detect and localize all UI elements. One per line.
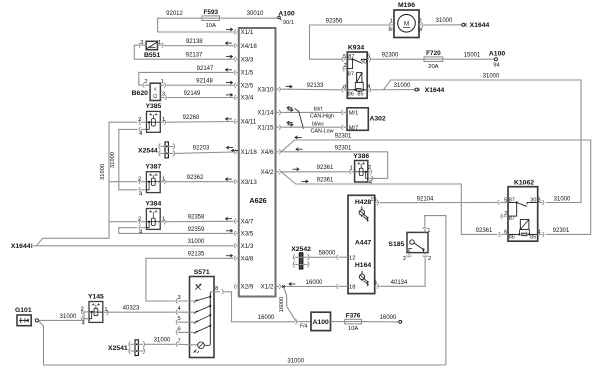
svg-text:85: 85: [357, 92, 363, 98]
svg-text:A100: A100: [489, 51, 505, 58]
svg-text:16000: 16000: [306, 280, 323, 286]
wire S571 pin 8 to 16000: [224, 292, 295, 322]
wire 40134: [379, 258, 425, 287]
wire 92012: [158, 11, 234, 32]
wire 31000 down from G101: [39, 321, 446, 365]
wire 31000 X2541 to S571/7: [144, 338, 175, 345]
svg-text:2: 2: [419, 19, 422, 25]
svg-text:X1/5: X1/5: [241, 70, 254, 77]
svg-text:S185: S185: [388, 241, 404, 248]
wire 92361 lower: [281, 172, 497, 235]
svg-text:6: 6: [177, 326, 180, 332]
connector X2544: [138, 142, 175, 158]
A626 pin X2/5: [226, 81, 254, 89]
wire 92301 lower: [281, 145, 388, 151]
wire 16000 X1/2 to A447/18: [281, 280, 336, 288]
svg-text:30: 30: [530, 197, 536, 203]
A626 pin X1/3: [234, 243, 253, 250]
svg-text:A447: A447: [355, 239, 371, 246]
svg-text:94: 94: [493, 63, 499, 69]
K934 pin 2: [343, 63, 347, 71]
wire Y386/4 to 92301: [368, 152, 388, 179]
warning lamp H164: [355, 262, 371, 286]
ground G101: [15, 307, 32, 326]
svg-text:16000: 16000: [258, 315, 275, 321]
svg-text:92147: 92147: [197, 66, 214, 72]
wire 92362: [166, 175, 234, 182]
A626 pin X1/15: [257, 124, 280, 131]
K934 pin 5: [342, 54, 347, 62]
terminal node G101: [35, 319, 38, 322]
svg-text:1: 1: [427, 228, 430, 234]
svg-text:K934: K934: [348, 45, 364, 52]
svg-text:X1/3: X1/3: [241, 243, 254, 250]
terminal 16000 end: [399, 321, 402, 324]
wire 30010: [220, 11, 278, 18]
svg-text:X1644: X1644: [425, 87, 445, 94]
wire 92104: [380, 196, 498, 202]
svg-text:12: 12: [349, 255, 355, 261]
relay K934: [347, 45, 367, 99]
svg-text:Y387: Y387: [145, 164, 161, 171]
svg-text:92133: 92133: [307, 83, 324, 89]
wire 92300: [372, 52, 425, 59]
svg-text:87: 87: [348, 54, 354, 60]
A626 pin X4/2: [261, 169, 281, 176]
svg-text:X4/11: X4/11: [241, 119, 257, 126]
relay K1062: [508, 179, 538, 241]
wire 31000 K934/4 to X1644: [372, 83, 415, 90]
svg-text:M/7: M/7: [349, 125, 359, 131]
motor M196: [388, 2, 423, 37]
svg-text:92301: 92301: [335, 145, 352, 151]
A626 pin X1/14: [257, 110, 280, 117]
svg-text:92301: 92301: [335, 134, 352, 140]
svg-text:bl/ws: bl/ws: [312, 121, 324, 127]
connector X2542: [291, 246, 311, 269]
svg-text:3: 3: [537, 197, 540, 203]
svg-text:92104: 92104: [417, 196, 434, 202]
svg-text:58000: 58000: [319, 251, 336, 257]
wire 92356: [310, 18, 389, 59]
svg-text:K1062: K1062: [514, 179, 534, 186]
svg-text:X1644: X1644: [11, 243, 31, 250]
wire CAN-High: [281, 106, 341, 128]
svg-text:X1/2: X1/2: [261, 284, 274, 291]
A626 pin X1/18: [227, 146, 258, 156]
svg-text:87: 87: [509, 197, 515, 203]
svg-text:6: 6: [367, 53, 370, 59]
wire 92135: [146, 252, 234, 301]
svg-text:H428: H428: [355, 199, 371, 206]
A447 pin 9: [374, 281, 379, 289]
svg-text:M/1: M/1: [349, 111, 359, 117]
svg-text:18: 18: [349, 285, 355, 291]
svg-text:1: 1: [161, 79, 164, 85]
svg-text:40134: 40134: [391, 280, 408, 286]
svg-text:B620: B620: [132, 90, 148, 97]
wire 16000 into A100: [296, 319, 312, 329]
wire 92203: [174, 145, 233, 153]
wire 16000 branch down: [279, 287, 296, 322]
S571 illumination lamp pin 7: [176, 338, 210, 353]
S571 switch contact pin 3: [176, 295, 211, 304]
svg-text:bl: bl: [388, 27, 392, 33]
terminal X1644 left: [11, 243, 36, 250]
A626 pin X3/5: [226, 229, 254, 237]
A626 pin X3/3: [226, 55, 254, 63]
wire 16000 after F376: [362, 315, 399, 322]
svg-text:31000: 31000: [154, 338, 171, 344]
svg-text:9: 9: [374, 281, 377, 287]
svg-text:X1/15: X1/15: [257, 124, 274, 131]
control module A626: [239, 28, 276, 297]
terminal X1644 top: [462, 22, 490, 29]
svg-text:8: 8: [215, 286, 218, 292]
svg-text:X3/13: X3/13: [241, 179, 258, 186]
svg-text:92138: 92138: [186, 39, 203, 45]
svg-text:X4/7: X4/7: [241, 219, 254, 226]
svg-text:H164: H164: [355, 262, 371, 269]
svg-text:CAN-Low: CAN-Low: [310, 128, 333, 134]
svg-text:92359: 92359: [188, 227, 205, 233]
svg-text:92356: 92356: [326, 18, 343, 24]
svg-text:M196: M196: [398, 2, 415, 9]
svg-text:7: 7: [177, 338, 180, 344]
svg-text:92358: 92358: [188, 215, 205, 221]
wire 31000 to X1/3: [36, 239, 233, 246]
S571 switch contact pin 4: [176, 305, 211, 315]
svg-text:31000: 31000: [110, 152, 116, 168]
svg-text:40323: 40323: [123, 306, 140, 312]
wire 31000 ground bus: [36, 122, 137, 246]
A626 pin X3/13: [226, 178, 258, 186]
wire 31000 G101 to Y145: [39, 312, 86, 321]
A626 pin X1/5: [226, 68, 254, 76]
svg-text:Y385: Y385: [145, 103, 161, 110]
svg-text:2: 2: [504, 211, 507, 217]
wire 40323: [107, 306, 176, 313]
svg-text:X1/18: X1/18: [241, 149, 258, 156]
svg-text:31000: 31000: [436, 18, 453, 24]
A626 pin X4/7: [226, 217, 254, 225]
svg-text:31000: 31000: [483, 74, 500, 80]
svg-text:31000: 31000: [100, 164, 106, 180]
K934 pin 4: [367, 84, 371, 92]
svg-text:31000: 31000: [554, 197, 571, 203]
svg-text:X3/10: X3/10: [257, 86, 274, 93]
svg-text:92361: 92361: [476, 228, 493, 234]
svg-text:G101: G101: [15, 307, 32, 314]
svg-text:92361: 92361: [317, 178, 334, 184]
svg-text:3: 3: [403, 256, 406, 262]
svg-text:X2544: X2544: [138, 147, 158, 154]
A626 pin X4/11: [226, 117, 257, 125]
svg-text:92301: 92301: [553, 228, 570, 234]
svg-text:S571: S571: [194, 269, 210, 276]
K1062 pin 5: [498, 197, 508, 205]
valve Y385: [138, 103, 165, 137]
svg-text:X4/8: X4/8: [241, 256, 254, 263]
wire 92359: [119, 227, 234, 234]
svg-text:15: 15: [370, 197, 376, 203]
svg-text:31000: 31000: [287, 359, 304, 365]
svg-text:87: 87: [348, 71, 354, 77]
svg-text:87: 87: [509, 216, 515, 222]
svg-text:A302: A302: [369, 116, 385, 123]
svg-text:92361: 92361: [317, 165, 334, 171]
svg-text:X3/3: X3/3: [241, 56, 254, 63]
valve Y384: [138, 200, 165, 235]
fuse F593: [202, 9, 220, 29]
module A100: [311, 312, 331, 330]
K934 pin 6: [367, 53, 371, 61]
K1062 pin 6: [499, 229, 508, 237]
wire S185/1 to ground: [425, 216, 446, 365]
svg-text:92203: 92203: [193, 145, 210, 151]
A626 pin X4/6: [261, 149, 281, 156]
svg-text:Y384: Y384: [145, 200, 161, 207]
A626 pin X4/8: [226, 254, 254, 262]
switch S571: [190, 269, 215, 357]
svg-text:92260: 92260: [183, 115, 200, 121]
svg-text:16000: 16000: [380, 315, 397, 321]
svg-text:1: 1: [390, 19, 393, 25]
wire 92138: [164, 39, 234, 46]
svg-text:6: 6: [504, 229, 507, 235]
wire CAN-Low: [281, 121, 341, 134]
module A447: [348, 195, 375, 293]
svg-text:85: 85: [530, 235, 536, 241]
svg-text:Y386: Y386: [353, 153, 369, 160]
S185 pin 1: [422, 227, 430, 234]
svg-text:X4/18: X4/18: [241, 43, 258, 50]
svg-text:30: 30: [361, 59, 367, 65]
wire 92133: [281, 83, 341, 90]
S185 pin 3: [403, 253, 412, 262]
sensor B551: [139, 40, 163, 59]
wire 92260: [166, 115, 233, 122]
svg-text:92149: 92149: [184, 91, 201, 97]
A626 pin X3/4: [226, 93, 254, 101]
svg-text:2: 2: [144, 79, 147, 85]
svg-text:X2541: X2541: [108, 345, 128, 352]
svg-text:92300: 92300: [382, 52, 399, 58]
wire Y385/4 to Y387/4: [110, 129, 137, 189]
terminal A100 90/1: [278, 10, 295, 26]
svg-text:F720: F720: [426, 50, 441, 57]
svg-text:31000: 31000: [394, 83, 411, 89]
wire 92137: [134, 45, 233, 59]
svg-text:X1/14: X1/14: [257, 110, 274, 117]
svg-text:8: 8: [343, 84, 346, 90]
module A302: [342, 108, 386, 132]
svg-text:A100: A100: [278, 10, 294, 17]
svg-text:B551: B551: [144, 52, 160, 59]
A626 pin X3/10: [257, 86, 280, 93]
svg-text:15001: 15001: [464, 53, 481, 59]
svg-text:A626: A626: [249, 196, 266, 205]
wire 31000 to K1062/30: [384, 74, 581, 203]
valve Y386: [350, 153, 373, 186]
svg-text:10A: 10A: [348, 326, 358, 332]
switch S185: [388, 232, 428, 252]
A447 pin 15: [370, 197, 378, 205]
svg-text:X3/5: X3/5: [241, 231, 254, 238]
svg-text:4: 4: [367, 84, 370, 90]
K1062 pin 3: [537, 197, 544, 205]
svg-text:92012: 92012: [166, 11, 183, 17]
svg-text:X2542: X2542: [291, 246, 311, 253]
svg-text:86: 86: [348, 92, 354, 98]
S571 switch contact pin 5: [176, 314, 211, 325]
A626 pin X1/2: [261, 284, 281, 291]
svg-text:86: 86: [509, 235, 515, 241]
wire 58000: [309, 251, 336, 258]
svg-text:1: 1: [350, 166, 353, 172]
svg-text:5: 5: [504, 197, 507, 203]
sensor B620: [132, 79, 167, 101]
svg-text:2: 2: [428, 256, 431, 262]
svg-text:br: br: [418, 27, 423, 33]
warning lamp H428: [355, 199, 371, 222]
wire 92148: [166, 79, 233, 86]
fuse F376: [331, 312, 362, 332]
svg-text:X2/5: X2/5: [241, 82, 254, 89]
svg-text:X1/1: X1/1: [241, 29, 254, 36]
svg-text:F/4: F/4: [300, 323, 308, 329]
svg-text:92362: 92362: [187, 175, 204, 181]
wire 92358: [166, 215, 234, 222]
svg-text:20A: 20A: [428, 64, 438, 70]
svg-text:F593: F593: [204, 9, 219, 16]
svg-text:X2/9: X2/9: [241, 284, 254, 291]
svg-text:10A: 10A: [206, 23, 216, 29]
svg-text:5: 5: [343, 54, 346, 60]
S571 pin 8: [210, 286, 223, 294]
svg-text:92135: 92135: [188, 252, 205, 258]
svg-text:92137: 92137: [186, 53, 203, 59]
A447 pin 12: [337, 255, 356, 262]
fuse F720: [424, 50, 443, 70]
connector X2541: [108, 340, 145, 356]
svg-text:A100: A100: [313, 319, 329, 326]
A447 pin 18: [337, 284, 356, 291]
wire 31000 M196 to X1644: [424, 18, 462, 25]
K934 pin 8: [342, 84, 347, 92]
svg-text:90/1: 90/1: [283, 20, 294, 26]
terminal X1644 mid: [415, 87, 445, 94]
svg-text:2: 2: [368, 165, 371, 171]
wire 92301 upper: [281, 134, 591, 235]
svg-text:31000: 31000: [188, 239, 205, 245]
S571 switch contact pin 6: [176, 325, 211, 335]
svg-text:2: 2: [343, 63, 346, 69]
svg-text:3: 3: [162, 92, 165, 98]
svg-text:Y145: Y145: [88, 293, 104, 300]
svg-text:31000: 31000: [60, 314, 77, 320]
svg-text:X1644: X1644: [470, 22, 490, 29]
svg-text:bl/rt: bl/rt: [314, 107, 323, 113]
A626 pin X2/9: [234, 284, 253, 291]
wire 15001: [443, 53, 495, 60]
valve Y145: [81, 293, 108, 326]
svg-text:5: 5: [177, 316, 180, 322]
svg-text:3: 3: [177, 295, 180, 301]
wire 92361 upper: [281, 165, 349, 172]
svg-text:X3/4: X3/4: [241, 95, 254, 102]
svg-text:X4/6: X4/6: [261, 149, 274, 156]
wire 92147: [139, 66, 234, 85]
S571 contact bus: [209, 292, 211, 346]
svg-text:92148: 92148: [196, 79, 213, 85]
valve Y387: [138, 164, 165, 198]
svg-text:4: 4: [537, 229, 540, 235]
K1062 pin 2: [501, 211, 508, 219]
svg-text:CAN-High: CAN-High: [310, 114, 334, 120]
terminal A100 94: [489, 51, 505, 69]
svg-text:30010: 30010: [247, 11, 264, 17]
K1062 pin 4: [537, 229, 544, 237]
svg-text:M: M: [404, 21, 409, 28]
A626 pin X4/18: [226, 42, 258, 50]
S185 pin 2: [423, 253, 432, 262]
S571 mirror-adjust icon: [195, 284, 202, 290]
A626 pin X1/1: [226, 28, 254, 36]
svg-text:16000: 16000: [279, 297, 285, 313]
svg-text:Ω: Ω: [153, 94, 157, 100]
wire 92149: [167, 91, 233, 98]
svg-text:X4/2: X4/2: [261, 169, 274, 176]
svg-text:F376: F376: [346, 312, 361, 319]
